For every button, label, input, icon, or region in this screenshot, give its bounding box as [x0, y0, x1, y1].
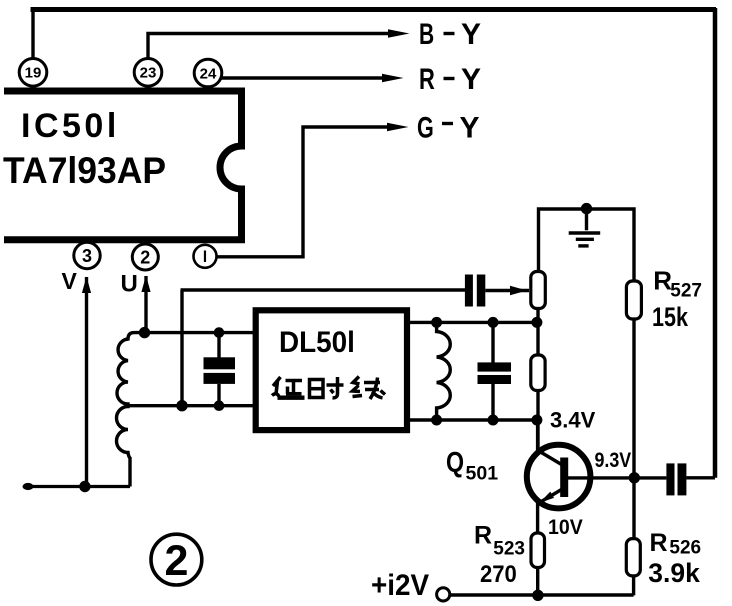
transistor Q501 collector diagonal [538, 451, 562, 465]
wire +12V bottom rail [450, 593, 634, 596]
pin circle 19 [19, 59, 47, 87]
pin circle 23 [134, 59, 162, 87]
svg-text:TA7l93AP: TA7l93AP [3, 149, 166, 191]
node L2 top [431, 317, 442, 328]
svg-text:B: B [419, 19, 434, 51]
node 9.3V [629, 472, 640, 483]
ground rail wire [539, 209, 635, 282]
coupling capacitor C mid plates [465, 275, 485, 307]
svg-text:+i2V: +i2V [371, 569, 430, 602]
transistor Q501 emitter arrow [540, 492, 555, 503]
pin circle 2 [132, 244, 158, 270]
node 3.4V [531, 415, 542, 426]
svg-text:3.4V: 3.4V [550, 408, 596, 433]
wire R527 chain x634 [632, 281, 635, 478]
wire right edge rail [713, 8, 718, 478]
label G-Y [417, 110, 480, 145]
wire DL501 right upper to node [407, 321, 537, 324]
label R-Y [419, 62, 481, 96]
svg-text:Y: Y [460, 112, 480, 145]
svg-text:24: 24 [200, 65, 217, 82]
capacitor left (across L) top stub [217, 333, 220, 358]
svg-text:2: 2 [140, 248, 150, 268]
arrow V up [82, 277, 91, 294]
pin circle 3 [74, 242, 100, 268]
svg-text:l: l [203, 249, 207, 266]
IC501 top edge [4, 88, 245, 95]
wire U input vertical [144, 276, 147, 333]
wire V input vertical [85, 277, 88, 487]
svg-text:G: G [417, 110, 434, 144]
capacitor right bottom stub [491, 384, 494, 420]
node ground [581, 203, 592, 214]
coupling capacitor right plates [666, 463, 686, 495]
arrow G-Y [387, 123, 409, 132]
capacitor right plates [478, 362, 512, 384]
resistor R526 body [626, 539, 640, 576]
wire pin23 to B-Y [148, 34, 394, 59]
node V bottom [79, 481, 90, 492]
wire cap to right rail [686, 476, 715, 479]
node cap-left bottom [214, 400, 225, 411]
svg-text:Y: Y [461, 63, 481, 96]
node cap-left top [214, 327, 225, 338]
transistor Q501 collector lead [536, 418, 539, 452]
IC501 bottom edge [4, 236, 245, 243]
svg-text:DL50l: DL50l [279, 326, 355, 359]
label B-Y [419, 18, 481, 51]
node x182 bottom [176, 400, 187, 411]
label 线 hand-drawn [353, 377, 386, 400]
figure number 2 circle [151, 534, 202, 585]
svg-text:2: 2 [164, 537, 188, 585]
capacitor left bottom stub [217, 384, 220, 406]
svg-text:526: 526 [669, 538, 701, 559]
svg-text:IC50l: IC50l [21, 107, 120, 145]
IC501 right edge with notch [220, 89, 242, 240]
wire base to 9.3V node [566, 476, 666, 479]
node L2 bottom [431, 415, 442, 426]
capacitor left plates [204, 357, 236, 384]
blob end of bottom-left wire [23, 483, 34, 490]
svg-text:19: 19 [25, 65, 42, 82]
svg-text:Y: Y [461, 18, 481, 51]
arrow R-Y [382, 74, 404, 83]
DL501 delay line box [256, 310, 407, 430]
svg-text:3.9k: 3.9k [648, 558, 700, 588]
svg-text:23: 23 [140, 65, 157, 82]
wire middle tap to DL501 left lower [125, 404, 255, 407]
arrow into resistor [510, 286, 527, 296]
wire R523 chain [536, 533, 539, 595]
transistor Q501 emitter lead [536, 500, 539, 534]
wire bottom-left horizontal [25, 485, 130, 488]
inductor L right [437, 322, 451, 420]
resistor R523 body [531, 533, 545, 568]
label 时 hand-drawn [310, 377, 344, 398]
svg-text:R: R [650, 529, 668, 557]
wire R526 chain [632, 478, 636, 596]
svg-text:3: 3 [82, 246, 92, 266]
svg-text:Q: Q [446, 445, 464, 478]
inductor L left [117, 333, 145, 487]
svg-text:U: U [121, 271, 138, 298]
capacitor right (across L2) top stub [491, 322, 494, 362]
node cap-right top [488, 317, 499, 328]
wire pin1 to G-Y [217, 127, 394, 257]
pin circle 24 [194, 59, 222, 87]
transistor Q501 circle [527, 445, 591, 509]
node R523 bottom [532, 590, 543, 601]
arrow U up [141, 276, 150, 293]
wire corner x182 down [180, 290, 183, 406]
wire resistor chain x538 [536, 270, 539, 452]
arrow B-Y [388, 29, 410, 38]
svg-text:523: 523 [493, 539, 525, 560]
transistor Q501 emitter diagonal [541, 490, 562, 503]
node U/L1 [139, 327, 150, 338]
svg-text:15k: 15k [652, 303, 688, 333]
svg-text:V: V [62, 268, 78, 294]
wire pin19 to top rail [31, 10, 34, 59]
wire node U to DL501 left upper [145, 331, 256, 334]
svg-text:501: 501 [466, 462, 499, 484]
wire cap to wiper arrow [485, 289, 529, 292]
svg-text:R: R [419, 62, 435, 96]
transistor Q501 base bar [560, 458, 568, 498]
resistor R527 body [626, 281, 641, 319]
resistor upper (wiper) body [531, 272, 546, 309]
svg-text:270: 270 [480, 560, 517, 587]
ground symbol [569, 209, 601, 246]
svg-text:R: R [474, 522, 492, 550]
node chain top [531, 317, 542, 328]
pin circle 1 [194, 245, 217, 268]
svg-text:527: 527 [670, 281, 702, 302]
wire top rail [31, 7, 717, 12]
terminal +12V [437, 588, 450, 601]
svg-text:10V: 10V [548, 516, 583, 539]
label 延 hand-drawn [272, 377, 305, 398]
node cap-right bottom [488, 415, 499, 426]
wire pin24 to R-Y [221, 76, 388, 79]
wire y290 to coupling cap [181, 288, 466, 291]
resistor lower body [531, 355, 545, 391]
wire DL501 right lower to node 3.4V [407, 418, 537, 421]
svg-text:9.3V: 9.3V [595, 449, 632, 473]
